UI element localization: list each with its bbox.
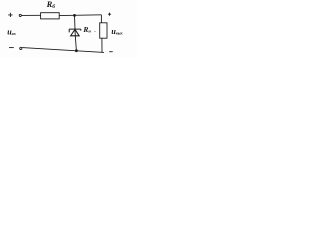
plus sign output <box>108 13 111 16</box>
wire <box>75 29 76 50</box>
resistor R2 load body <box>100 23 107 38</box>
node A junction top <box>73 14 76 17</box>
wire right vertical bottom <box>101 38 103 52</box>
wire <box>22 14 41 16</box>
terminal input top <box>19 14 21 16</box>
plus sign input <box>8 13 12 17</box>
wire bottom rail <box>22 48 104 53</box>
minus sign input <box>9 47 14 49</box>
minus sign output <box>109 51 113 53</box>
wire <box>74 15 77 29</box>
background <box>0 0 137 57</box>
wire <box>59 14 101 17</box>
node B junction bottom <box>75 49 78 52</box>
resistor R1 body <box>41 13 60 19</box>
speck near Rн <box>94 30 97 33</box>
zener diode VD triangle <box>71 29 80 35</box>
terminal input bottom <box>20 47 22 49</box>
zener diode VD cathode bar with hooks <box>69 29 81 32</box>
wire right vertical top <box>100 15 102 23</box>
